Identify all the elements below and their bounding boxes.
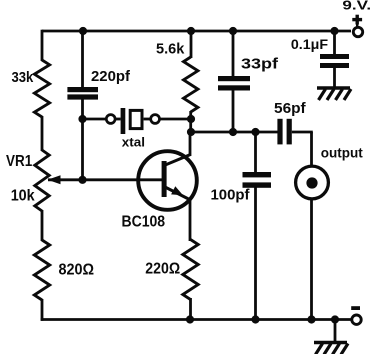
wire 33pf bottom lead bbox=[232, 90, 235, 133]
plus sign bbox=[352, 18, 362, 21]
wire 0.1uF top lead bbox=[333, 31, 336, 55]
VR1 wiper arrow bbox=[48, 175, 61, 184]
wire base to wiper bbox=[48, 178, 162, 181]
wire emitter vertical bbox=[189, 199, 192, 241]
wire 220pf bottom lead to base node bbox=[81, 99, 84, 181]
node xtal / 5.6k bbox=[187, 115, 195, 123]
node bottom rail / 220R bbox=[186, 315, 194, 323]
svg-text:10k: 10k bbox=[11, 188, 35, 205]
node base / 220pf bbox=[78, 176, 86, 184]
resistor R2 5.6k bbox=[184, 57, 198, 112]
output connector circle bbox=[296, 166, 329, 199]
wire 56pf to output corner bbox=[292, 131, 313, 134]
node bottom rail / ground bbox=[331, 315, 339, 323]
wire 100pf top lead bbox=[254, 132, 257, 173]
potentiometer VR1 10k bbox=[35, 150, 49, 211]
transistor emitter arrow bbox=[171, 186, 183, 195]
transistor emitter lead bbox=[164, 187, 191, 201]
node top rail / 0.1uF bbox=[330, 27, 338, 35]
wire collector node row bbox=[191, 131, 278, 134]
resistor R4 220R bbox=[183, 240, 198, 300]
wire left rail upper bbox=[41, 30, 44, 61]
transistor base bar bbox=[162, 161, 167, 197]
transistor collector lead bbox=[164, 155, 191, 166]
svg-text:100pf: 100pf bbox=[211, 187, 250, 203]
svg-text:33k: 33k bbox=[12, 69, 34, 86]
wire bottom rail bbox=[41, 318, 351, 321]
wire 5.6k bottom lead bbox=[189, 111, 192, 133]
node collector / 33pf bbox=[229, 128, 237, 136]
wire collector vertical bbox=[189, 132, 192, 156]
crystal XTAL left terminal circle bbox=[106, 115, 115, 124]
node top rail / 33pf bbox=[229, 27, 237, 35]
svg-text:9.V.: 9.V. bbox=[342, 0, 371, 12]
wire xtal right stub bbox=[144, 118, 150, 121]
node top rail / 220pf bbox=[79, 27, 87, 35]
resistor R3 820R bbox=[34, 240, 49, 300]
svg-text:5.6k: 5.6k bbox=[156, 41, 185, 58]
transistor Q1 BC108 circle bbox=[138, 151, 197, 210]
wire xtal left stub bbox=[116, 118, 121, 121]
capacitor C3 100pf bbox=[243, 172, 272, 177]
wire node to xtal left bbox=[83, 118, 106, 121]
svg-text:220pf: 220pf bbox=[91, 69, 130, 85]
capacitor C2 33pf bbox=[218, 76, 250, 81]
resistor R1 33k bbox=[34, 60, 49, 117]
svg-text:56pf: 56pf bbox=[274, 101, 306, 117]
svg-text:220Ω: 220Ω bbox=[145, 260, 180, 277]
minus sign bbox=[351, 306, 360, 310]
capacitor C5 0.1uF bbox=[320, 54, 349, 59]
wire left rail 820-to-bottom bbox=[41, 299, 44, 321]
svg-text:xtal: xtal bbox=[122, 134, 145, 149]
svg-text:33pf: 33pf bbox=[241, 56, 278, 72]
node collector bbox=[187, 128, 195, 136]
ground (bottom rail) bbox=[314, 343, 348, 354]
capacitor C4 56pf bbox=[277, 119, 282, 145]
svg-text:output: output bbox=[321, 144, 363, 160]
wire left rail VR1-to-820 bbox=[41, 210, 44, 241]
svg-text:BC108: BC108 bbox=[122, 214, 166, 231]
wire 100pf bottom lead bbox=[254, 188, 257, 320]
wire top supply rail bbox=[42, 30, 351, 33]
wire 220R bottom lead bbox=[189, 298, 192, 320]
capacitor C1 220pf bbox=[67, 87, 98, 92]
+9V terminal bbox=[353, 27, 362, 36]
node top rail / 5.6k bbox=[187, 27, 195, 35]
node bottom rail / output bbox=[307, 315, 315, 323]
minus terminal bbox=[352, 315, 361, 324]
wire output connector top lead bbox=[310, 132, 313, 165]
svg-text:VR1: VR1 bbox=[6, 153, 32, 170]
wire left rail 33k-to-VR1 bbox=[41, 116, 44, 151]
node collector / 100pf bbox=[251, 128, 259, 136]
crystal XTAL left plate bbox=[121, 108, 126, 134]
wire xtal to collector node bbox=[160, 118, 192, 121]
wire 33pf top lead bbox=[232, 31, 235, 77]
crystal XTAL body box bbox=[130, 110, 142, 128]
wire 220pf top lead bbox=[81, 31, 84, 88]
ground (0.1uF) bbox=[317, 88, 351, 100]
node bottom rail / 100pf bbox=[251, 315, 259, 323]
node 220pf / xtal bbox=[78, 115, 86, 123]
crystal XTAL right terminal circle bbox=[151, 115, 160, 124]
wire 5.6k top lead bbox=[190, 31, 193, 58]
svg-text:820Ω: 820Ω bbox=[59, 262, 95, 279]
wire output connector bottom lead bbox=[310, 200, 313, 320]
wire 0.1uF bottom lead bbox=[333, 68, 336, 89]
wire ground stub bbox=[334, 320, 337, 343]
svg-text:0.1μF: 0.1μF bbox=[291, 37, 328, 52]
output connector center pin bbox=[306, 177, 317, 188]
